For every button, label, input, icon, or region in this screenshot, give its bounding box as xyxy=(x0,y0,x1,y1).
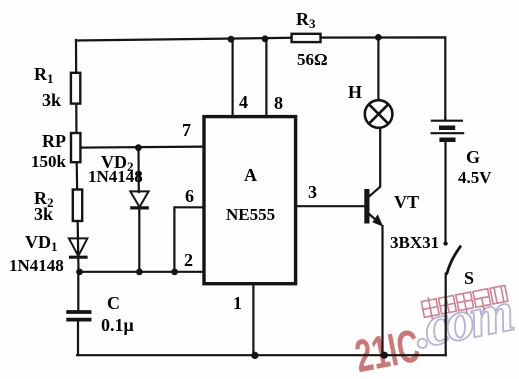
op-amp U1 IC box NE555 xyxy=(204,117,296,284)
svg-text:R3: R3 xyxy=(296,9,316,31)
resistor R2 xyxy=(73,190,82,222)
wire pin6 bracket xyxy=(174,207,202,271)
battery G xyxy=(431,121,465,140)
transistor VT emitter arrow xyxy=(372,214,383,227)
wire cap top xyxy=(77,272,79,310)
svg-text:21IC: 21IC xyxy=(351,319,424,379)
svg-text:3: 3 xyxy=(308,182,317,202)
watermark 21IC.com xyxy=(347,280,519,379)
svg-text:C: C xyxy=(107,293,120,313)
wire battery to switch xyxy=(444,140,446,244)
svg-text:6: 6 xyxy=(185,186,194,206)
wire pin2 horizontal xyxy=(79,271,203,273)
switch S contact blob xyxy=(443,241,447,245)
wire bottom rail xyxy=(77,354,446,356)
svg-text:150k: 150k xyxy=(31,152,67,171)
wire pin3 xyxy=(297,205,365,207)
wire pin8 xyxy=(265,39,267,116)
wire emitter vertical xyxy=(381,226,383,355)
svg-text:1N4148: 1N4148 xyxy=(88,167,143,186)
svg-text:VD1: VD1 xyxy=(25,232,58,254)
svg-text:1: 1 xyxy=(233,293,242,313)
svg-text:8: 8 xyxy=(274,93,283,113)
wire emitter lead xyxy=(370,215,378,222)
resistor RP xyxy=(71,133,80,162)
diode VD2 xyxy=(130,191,149,208)
wire VD2 anode xyxy=(137,148,140,192)
svg-text:56Ω: 56Ω xyxy=(297,50,328,69)
svg-text:7: 7 xyxy=(182,120,191,140)
svg-text:G: G xyxy=(466,147,480,167)
wire lamp top xyxy=(377,37,379,100)
resistor R3 xyxy=(292,34,321,42)
svg-text:3k: 3k xyxy=(34,204,53,224)
wire cap bottom xyxy=(77,322,79,356)
lamp H xyxy=(365,100,393,128)
svg-text:VT: VT xyxy=(394,192,419,212)
svg-text:H: H xyxy=(348,82,362,102)
wire collector xyxy=(370,128,380,196)
wire VD2 cathode xyxy=(138,209,140,272)
svg-text:S: S xyxy=(464,268,474,288)
svg-text:.com: .com xyxy=(409,280,517,361)
svg-text:0.1μ: 0.1μ xyxy=(101,315,134,335)
svg-text:3k: 3k xyxy=(42,90,61,110)
switch S arm xyxy=(447,247,460,274)
wire pin7 from RP tap xyxy=(80,147,203,148)
svg-text:3BX31: 3BX31 xyxy=(390,233,439,252)
wire switch bottom xyxy=(445,274,447,356)
capacitor C xyxy=(66,312,91,320)
svg-text:2: 2 xyxy=(184,250,193,270)
svg-text:NE555: NE555 xyxy=(226,205,275,224)
node junction dots xyxy=(76,34,388,359)
svg-text:R1: R1 xyxy=(34,64,54,86)
wire pin4 xyxy=(232,39,234,116)
svg-text:4.5V: 4.5V xyxy=(458,168,492,187)
resistor R1 xyxy=(71,73,80,104)
transistor VT base bar xyxy=(364,189,369,224)
wire top rail xyxy=(76,38,292,41)
svg-text:RP: RP xyxy=(42,131,66,151)
wire left rail xyxy=(76,40,79,272)
svg-text:A: A xyxy=(244,165,257,185)
diode VD1 xyxy=(69,238,88,257)
wire pin1 xyxy=(252,285,254,355)
wire battery top xyxy=(444,118,446,121)
svg-text:1N4148: 1N4148 xyxy=(9,256,64,275)
svg-text:4: 4 xyxy=(239,92,248,112)
